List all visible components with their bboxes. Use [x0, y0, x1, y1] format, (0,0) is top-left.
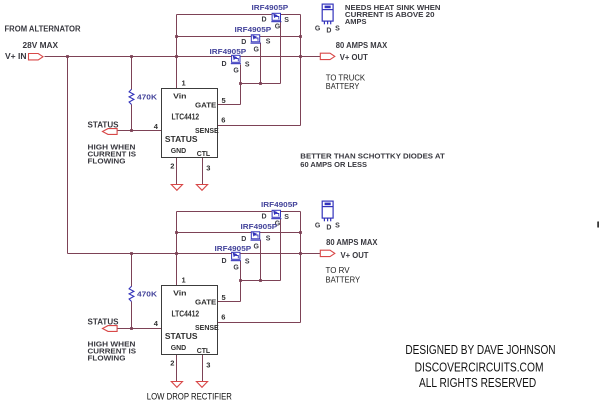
wire: V+ OUT branch: [241, 253, 321, 255]
wire: M2a gate lead: [260, 43, 262, 84]
svg-text:IRF4905P: IRF4905P: [241, 224, 278, 231]
wire: IC pin 5 GATE stub: [218, 301, 241, 303]
svg-text:AMPS: AMPS: [345, 17, 367, 26]
svg-text:SENSE: SENSE: [195, 323, 219, 332]
wire: IC pin 2 lead: [176, 355, 178, 382]
transistor Q3a (IRF4905P p-channel MOSFET symbol): [231, 55, 241, 64]
svg-text:STATUS: STATUS: [88, 317, 120, 326]
transistor Q2a (IRF4905P p-channel MOSFET symbol): [251, 35, 261, 44]
svg-text:IRF4905P: IRF4905P: [215, 246, 252, 253]
svg-text:S: S: [245, 61, 250, 68]
svg-text:V+ OUT: V+ OUT: [341, 251, 369, 260]
TO-220 package symbol (heat sink note): [322, 4, 333, 24]
wire: M1a source to output node: [281, 14, 301, 16]
wire: M1b source to output node: [281, 211, 301, 213]
svg-text:D: D: [241, 39, 246, 46]
svg-text:STATUS: STATUS: [165, 135, 198, 144]
svg-text:D: D: [222, 61, 227, 68]
svg-text:80 AMPS MAX: 80 AMPS MAX: [326, 238, 378, 247]
svg-text:S: S: [335, 25, 340, 32]
wire: output node vertical: [300, 212, 302, 323]
svg-text:5: 5: [222, 293, 226, 302]
IC Ua LTC4412 ideal-diode controller: [162, 89, 218, 158]
svg-text:FROM ALTERNATOR: FROM ALTERNATOR: [5, 25, 81, 34]
wire: lower main row: [68, 253, 232, 255]
wire: resistor bottom lead: [131, 302, 133, 329]
svg-text:BATTERY: BATTERY: [326, 275, 361, 284]
svg-text:CTL: CTL: [197, 346, 211, 355]
node V+ OUTa : output port connector: [320, 53, 335, 59]
svg-text:DISCOVERCIRCUITS.COM: DISCOVERCIRCUITS.COM: [415, 361, 544, 375]
TO-220 package symbol (heat sink note): [322, 201, 333, 221]
svg-text:V+ OUT: V+ OUT: [340, 53, 368, 62]
svg-text:IRF4905P: IRF4905P: [261, 202, 298, 209]
svg-text:FLOWING: FLOWING: [88, 353, 126, 362]
wire: resistor top lead: [131, 57, 133, 90]
svg-text:G: G: [254, 46, 260, 53]
svg-text:2: 2: [170, 161, 174, 170]
wire: resistor bottom lead: [131, 105, 133, 131]
node STATUSa : status output connector: [103, 129, 118, 135]
svg-text:GATE: GATE: [195, 298, 216, 307]
svg-text:IRF4905P: IRF4905P: [235, 27, 272, 34]
svg-text:D: D: [326, 28, 331, 35]
svg-text:IRF4905P: IRF4905P: [252, 5, 289, 12]
svg-text:S: S: [266, 39, 271, 46]
ground at IC pin 2: [171, 185, 182, 191]
svg-text:60 AMPS OR LESS: 60 AMPS OR LESS: [300, 160, 367, 169]
svg-text:LOW DROP RECTIFIER: LOW DROP RECTIFIER: [147, 392, 233, 402]
wire: M1a drain row: [177, 14, 272, 16]
svg-text:IRF4905P: IRF4905P: [210, 49, 247, 56]
wire: IC pin 3 lead: [202, 158, 204, 185]
resistor Rb 470K: [129, 286, 134, 301]
transistor Q2b (IRF4905P p-channel MOSFET symbol): [251, 232, 261, 241]
wire: IC pin 3 lead: [202, 355, 204, 382]
svg-text:G: G: [233, 68, 239, 75]
wire: IC pin 5 GATE stub: [218, 104, 241, 106]
wire: M2a source to output node: [260, 36, 301, 38]
stray tick mark right edge: [597, 221, 599, 227]
wire: M3a gate lead down to pin5 row: [240, 65, 242, 105]
svg-text:S: S: [284, 214, 289, 221]
svg-text:CTL: CTL: [197, 149, 211, 158]
ground at IC pin 2: [171, 382, 182, 388]
svg-text:D: D: [326, 225, 331, 232]
svg-text:3: 3: [206, 360, 210, 369]
svg-text:BATTERY: BATTERY: [326, 82, 360, 91]
wire: gate bus: [241, 280, 281, 282]
resistor Ra 470K: [129, 89, 134, 104]
svg-text:G: G: [275, 23, 281, 30]
svg-text:G: G: [254, 243, 260, 250]
wire: M3b gate lead down to pin5 row: [240, 261, 242, 302]
wire: M1a gate lead: [280, 21, 282, 84]
wire: main input V+ IN row: [45, 56, 232, 58]
svg-text:DESIGNED BY DAVE JOHNSON: DESIGNED BY DAVE JOHNSON: [405, 343, 555, 357]
wire: STATUS wire to IC pin 4: [118, 328, 162, 330]
svg-text:S: S: [266, 236, 271, 243]
svg-text:470K: 470K: [137, 290, 158, 299]
node V+ OUTb : output port connector: [320, 250, 335, 256]
wire: M2b drain row: [177, 232, 252, 234]
svg-text:D: D: [222, 258, 227, 265]
svg-text:5: 5: [222, 96, 226, 105]
wire: STATUS wire to IC pin 4: [118, 130, 162, 132]
svg-text:D: D: [241, 236, 246, 243]
svg-text:1: 1: [182, 79, 186, 88]
svg-text:2: 2: [170, 358, 174, 367]
svg-text:FLOWING: FLOWING: [88, 156, 126, 165]
wire: gate bus: [241, 83, 281, 85]
svg-text:GATE: GATE: [195, 101, 216, 110]
junction dots: [66, 55, 69, 58]
wire: IC pin 6 SENSE to output node: [218, 322, 301, 324]
wire: M1b gate lead: [280, 219, 282, 281]
node V+ IN : input port connector: [29, 54, 44, 60]
svg-text:GND: GND: [171, 343, 187, 352]
svg-text:Vin: Vin: [173, 289, 187, 298]
svg-text:S: S: [245, 258, 250, 265]
svg-text:G: G: [315, 223, 321, 230]
svg-text:LTC4412: LTC4412: [172, 112, 200, 121]
svg-text:470K: 470K: [137, 93, 158, 102]
transistor Q1b (IRF4905P p-channel MOSFET symbol): [271, 210, 281, 219]
IC Ub LTC4412 ideal-diode controller: [162, 286, 218, 355]
svg-text:D: D: [262, 214, 267, 221]
wire: resistor top lead: [131, 254, 133, 287]
svg-text:28V MAX: 28V MAX: [23, 41, 59, 50]
svg-text:80 AMPS MAX: 80 AMPS MAX: [336, 41, 388, 50]
node STATUSb : status output connector: [103, 326, 118, 332]
svg-text:3: 3: [206, 163, 210, 172]
transistor Q3b (IRF4905P p-channel MOSFET symbol): [231, 252, 241, 261]
svg-text:STATUS: STATUS: [88, 120, 120, 129]
svg-text:LTC4412: LTC4412: [172, 309, 200, 318]
wire: M1b drain row: [177, 211, 272, 213]
svg-text:SENSE: SENSE: [195, 126, 219, 135]
svg-text:1: 1: [182, 276, 186, 285]
svg-text:V+ IN: V+ IN: [5, 52, 27, 61]
svg-text:G: G: [233, 265, 239, 272]
wire: M2a drain row: [177, 36, 252, 38]
wire: M2b gate lead: [260, 240, 262, 281]
svg-text:S: S: [335, 222, 340, 229]
wire: IC pin 2 lead: [176, 158, 178, 185]
svg-text:S: S: [284, 17, 289, 24]
ground at IC pin 3: [196, 382, 207, 388]
transistor Q1a (IRF4905P p-channel MOSFET symbol): [271, 13, 281, 22]
wire: M2b source to output node: [260, 232, 301, 234]
wire: Vin vertical to IC pin 1: [176, 15, 178, 89]
wire: IC pin 6 SENSE to output node: [218, 125, 301, 127]
svg-text:G: G: [315, 26, 321, 33]
svg-text:TO RV: TO RV: [326, 266, 351, 275]
svg-text:STATUS: STATUS: [165, 332, 198, 341]
wire: output node vertical: [300, 15, 302, 126]
svg-text:6: 6: [221, 115, 225, 124]
svg-text:ALL RIGHTS RESERVED: ALL RIGHTS RESERVED: [419, 376, 536, 390]
svg-text:D: D: [262, 17, 267, 24]
svg-text:GND: GND: [171, 146, 187, 155]
svg-text:6: 6: [221, 312, 225, 321]
wire: Vin vertical to IC pin 1: [176, 212, 178, 286]
wire: V+ OUT branch: [241, 56, 321, 58]
svg-text:Vin: Vin: [173, 92, 187, 101]
wire: shared vertical from input to lower circuit: [67, 57, 69, 254]
ground at IC pin 3: [196, 185, 207, 191]
